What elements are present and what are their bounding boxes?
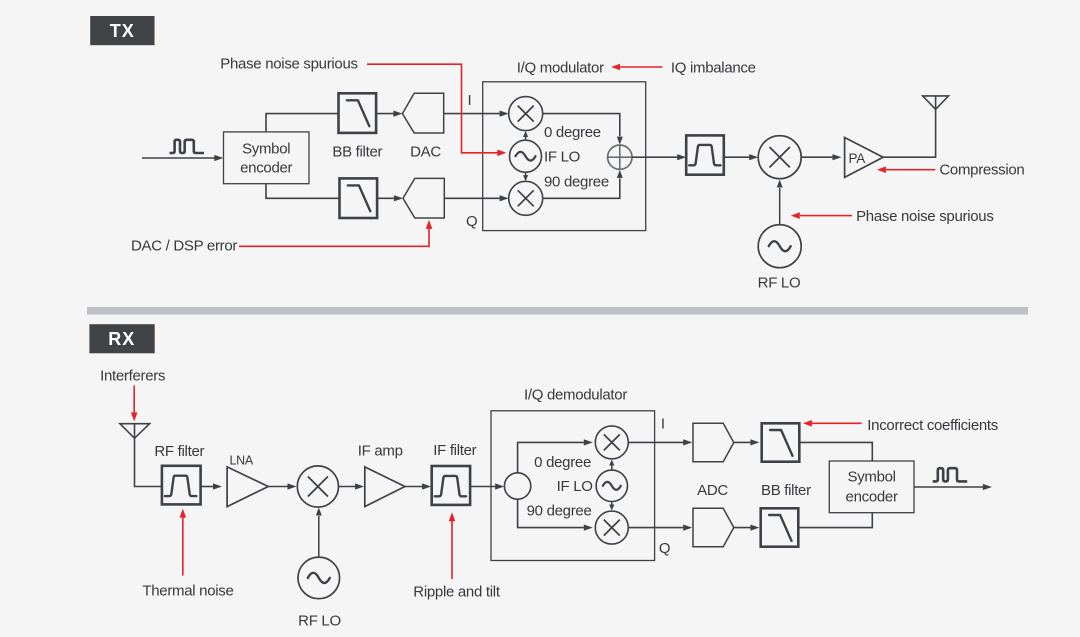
svg-text:IF LO: IF LO xyxy=(544,148,580,165)
arrow IF LO RX up xyxy=(609,460,614,471)
svg-text:RF LO: RF LO xyxy=(298,613,341,630)
label RF LO RX xyxy=(298,613,341,630)
block ADC lower pentagon xyxy=(693,508,734,546)
label DAC / DSP error xyxy=(131,237,237,254)
wire DAC to mixer I xyxy=(444,111,509,117)
svg-text:I: I xyxy=(468,92,472,109)
block symbol encoder TX xyxy=(224,132,310,184)
svg-text:Symbol: Symbol xyxy=(242,140,290,157)
svg-text:Phase noise spurious: Phase noise spurious xyxy=(220,56,357,73)
label 90 degree RX xyxy=(527,503,592,520)
summer circle xyxy=(608,145,632,169)
svg-text:Symbol: Symbol xyxy=(847,469,895,486)
label Thermal noise xyxy=(142,583,233,600)
amplifier LNA xyxy=(227,467,268,507)
svg-text:BB filter: BB filter xyxy=(761,482,811,499)
wire RF LO to mixer TX xyxy=(777,180,783,226)
arrow IF LO up xyxy=(523,131,528,140)
label Compression xyxy=(939,162,1024,179)
svg-text:I/Q modulator: I/Q modulator xyxy=(517,60,604,77)
label 0 degree TX xyxy=(544,124,601,141)
oscillator IF LO RX xyxy=(596,470,627,501)
svg-text:90 degree: 90 degree xyxy=(527,503,592,520)
svg-text:RX: RX xyxy=(108,329,135,349)
wire ADC to BB upper xyxy=(734,439,760,445)
label I/Q demodulator xyxy=(524,387,627,404)
wire BB upper to encoder xyxy=(799,442,872,461)
mixer RX front xyxy=(297,466,338,507)
block DAC lower pentagon xyxy=(403,178,444,218)
wire BB to DAC upper xyxy=(376,111,402,117)
red arrow interferers xyxy=(131,386,138,422)
red arrow incorrect coefficients xyxy=(803,420,862,427)
svg-text:0 degree: 0 degree xyxy=(534,454,591,471)
svg-text:RF LO: RF LO xyxy=(758,275,801,292)
wire DAC to mixer Q xyxy=(444,195,508,201)
wire RF filter to LNA xyxy=(201,483,222,489)
svg-text:IQ imbalance: IQ imbalance xyxy=(671,60,756,77)
svg-text:RF filter: RF filter xyxy=(154,443,204,460)
arrow IF LO down xyxy=(523,172,528,181)
red path DAC DSP error xyxy=(239,220,432,246)
box I/Q demodulator xyxy=(491,411,655,561)
wire antenna to RF filter xyxy=(135,438,162,486)
wire splitter to mixer I xyxy=(518,439,593,473)
svg-text:I: I xyxy=(661,416,665,433)
label BB filter TX xyxy=(332,143,382,160)
amplifier IF amp xyxy=(365,467,405,507)
label Q (TX) xyxy=(466,213,477,230)
wire RF LO to RX mixer xyxy=(316,508,322,558)
oscillator RF LO RX xyxy=(298,557,340,599)
wire encoder to upper BB filter xyxy=(266,114,339,132)
svg-text:Q: Q xyxy=(659,540,670,557)
label Q (RX) xyxy=(659,540,670,557)
red arrow compression xyxy=(877,166,935,173)
arrow IF LO RX down xyxy=(609,502,614,511)
wire PA to antenna xyxy=(883,109,936,157)
svg-text:I/Q demodulator: I/Q demodulator xyxy=(524,387,627,404)
block BB filter RX upper xyxy=(762,423,800,461)
mixer TX upper xyxy=(509,97,543,131)
wire BB lower to encoder xyxy=(798,513,872,528)
wire mixer I to ADC xyxy=(628,439,692,445)
wire IF filter to splitter xyxy=(470,483,504,489)
svg-text:Phase noise spurious: Phase noise spurious xyxy=(856,208,993,225)
RX badge xyxy=(89,324,154,353)
wire encoder output xyxy=(914,484,992,490)
wire BB to DAC lower xyxy=(377,195,403,201)
amplifier PA xyxy=(845,138,884,178)
splitter circle xyxy=(504,473,530,499)
wire BPF to RF mixer xyxy=(724,154,758,160)
mixer TX lower xyxy=(509,181,543,215)
label DAC xyxy=(410,143,441,160)
svg-text:Ripple and tilt: Ripple and tilt xyxy=(413,584,501,601)
label Interferers xyxy=(100,368,165,385)
red arrow thermal noise xyxy=(180,509,187,576)
svg-text:TX: TX xyxy=(110,21,135,41)
mixer RX I xyxy=(595,426,628,459)
label 90 degree TX xyxy=(544,174,609,191)
oscillator RF LO TX xyxy=(758,225,801,268)
wire LNA to RX mixer xyxy=(268,483,296,489)
red arrow ripple and tilt xyxy=(449,512,456,579)
svg-text:Incorrect coefficients: Incorrect coefficients xyxy=(867,417,998,434)
wire ADC to BB lower xyxy=(734,525,760,531)
label Phase noise spurious top xyxy=(220,56,357,73)
label RF filter xyxy=(154,443,204,460)
label ADC xyxy=(697,482,728,499)
wire input TX xyxy=(142,155,223,161)
block BB filter RX lower xyxy=(761,508,799,546)
divider bar xyxy=(87,307,1028,315)
svg-text:encoder: encoder xyxy=(240,160,292,177)
label Incorrect coefficients xyxy=(867,417,998,434)
wire mixer to IF amp xyxy=(339,483,365,489)
label IQ imbalance xyxy=(671,60,756,77)
svg-text:Compression: Compression xyxy=(939,162,1024,179)
mixer RX Q xyxy=(595,511,628,544)
svg-text:ADC: ADC xyxy=(697,482,728,499)
oscillator IF LO TX xyxy=(510,140,542,172)
block BB filter TX upper xyxy=(339,93,377,133)
label IF LO RX xyxy=(557,478,593,495)
label IF filter xyxy=(433,442,476,459)
block symbol encoder RX xyxy=(829,461,914,513)
red arrow IQ imbalance xyxy=(611,64,663,71)
svg-text:IF filter: IF filter xyxy=(433,442,476,459)
block RF filter xyxy=(162,466,201,505)
wire IF amp to IF filter xyxy=(405,483,431,489)
svg-text:Thermal noise: Thermal noise xyxy=(142,583,233,600)
antenna TX xyxy=(923,96,949,110)
wire splitter to mixer Q xyxy=(518,499,593,531)
block IF filter xyxy=(432,466,470,505)
svg-text:PA: PA xyxy=(849,151,866,166)
svg-text:DAC / DSP error: DAC / DSP error xyxy=(131,237,237,254)
label I (RX) xyxy=(661,416,665,433)
wire mixer Q to summer xyxy=(543,170,623,198)
label I (TX) xyxy=(468,92,472,109)
block ADC upper pentagon xyxy=(693,423,734,461)
label Phase noise spurious right xyxy=(856,208,993,225)
TX badge xyxy=(90,16,154,45)
svg-text:Q: Q xyxy=(466,213,477,230)
svg-text:IF amp: IF amp xyxy=(358,442,403,459)
label I/Q modulator xyxy=(517,60,604,77)
svg-text:DAC: DAC xyxy=(410,143,441,160)
label IF amp xyxy=(358,442,403,459)
label 0 degree RX xyxy=(534,454,591,471)
svg-text:90 degree: 90 degree xyxy=(544,174,609,191)
svg-text:LNA: LNA xyxy=(230,454,254,468)
input pulse-train glyph xyxy=(170,140,205,153)
label LNA xyxy=(230,454,254,468)
svg-text:Interferers: Interferers xyxy=(100,368,165,385)
svg-text:BB filter: BB filter xyxy=(332,143,382,160)
red path phase noise spurious top xyxy=(367,64,506,156)
svg-text:encoder: encoder xyxy=(846,489,898,506)
box I/Q modulator xyxy=(483,82,646,231)
output pulse-train glyph xyxy=(933,468,968,481)
antenna RX xyxy=(120,424,150,439)
svg-text:0 degree: 0 degree xyxy=(544,124,601,141)
wire mixer Q to ADC xyxy=(628,525,692,531)
wire encoder to lower BB filter xyxy=(266,184,340,199)
block DAC upper pentagon xyxy=(402,93,443,133)
block band-pass filter TX xyxy=(686,135,724,174)
svg-text:IF LO: IF LO xyxy=(557,478,593,495)
mixer TX RF xyxy=(758,136,801,179)
wire summer to BPF xyxy=(632,154,686,160)
red arrow phase noise spurious right xyxy=(791,212,852,219)
wire mixer I to summer xyxy=(543,114,623,145)
wire RF mixer to PA xyxy=(801,154,841,160)
label Ripple and tilt xyxy=(413,584,501,601)
label BB filter RX xyxy=(761,482,811,499)
label RF LO TX xyxy=(758,275,801,292)
label IF LO TX xyxy=(544,148,580,165)
block BB filter TX lower xyxy=(340,178,378,218)
